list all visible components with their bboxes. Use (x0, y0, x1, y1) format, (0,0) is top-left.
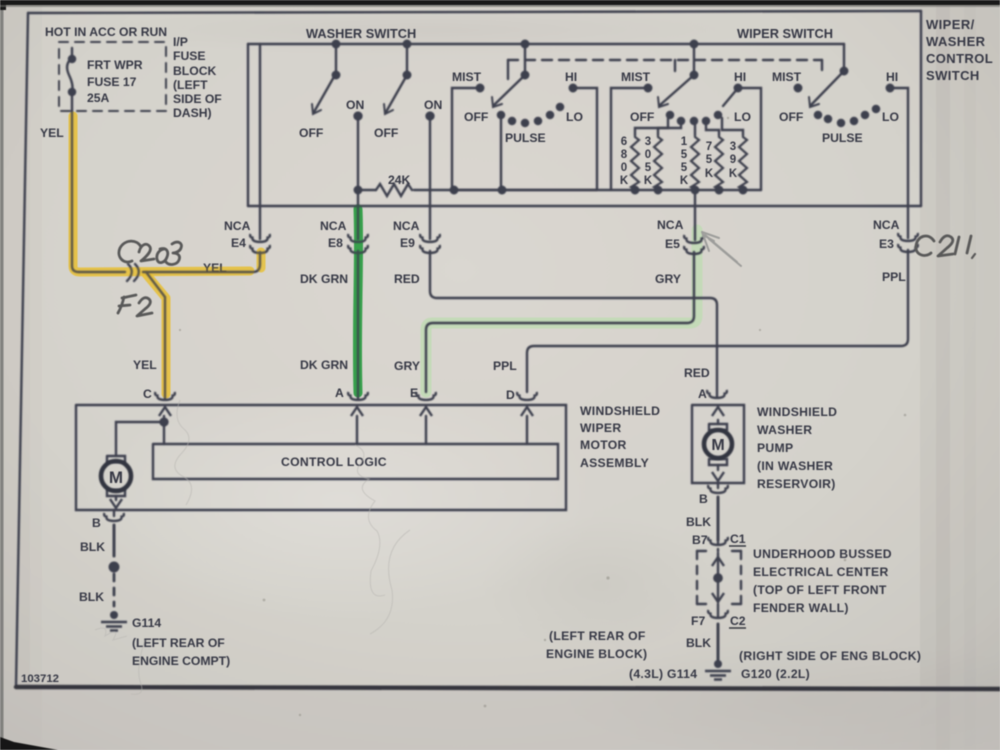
pulse arc 3 dots (815, 112, 821, 118)
terminal E (416, 392, 436, 400)
pump B wire below box (717, 483, 719, 488)
handwritten C203 (119, 241, 141, 262)
svg-text:MOTOR: MOTOR (580, 438, 627, 452)
svg-text:K: K (620, 175, 629, 187)
svg-text:8: 8 (621, 149, 628, 161)
BLK dashed section (113, 574, 116, 606)
motor out arrow (110, 499, 122, 508)
switch box bottom (248, 205, 921, 207)
terminal A (348, 392, 368, 400)
svg-text:(LEFT: (LEFT (173, 78, 208, 92)
UBEC bottom arrow (712, 593, 724, 602)
wiper switch arm 1 stem (524, 44, 526, 75)
svg-text:C1: C1 (730, 532, 746, 546)
svg-text:NCA: NCA (657, 218, 684, 232)
HI3 wire to E3 (890, 88, 908, 238)
branch to motor C (146, 272, 165, 399)
svg-text:5: 5 (681, 162, 688, 174)
svg-text:I/P: I/P (173, 35, 188, 49)
fuse terminal dots (69, 56, 75, 62)
svg-text:NCA: NCA (873, 218, 900, 232)
svg-text:FRT WPR: FRT WPR (87, 58, 143, 72)
motor junction dot (160, 418, 167, 425)
resistor 75K (715, 135, 723, 189)
wire E4 feed vertical (259, 44, 261, 239)
svg-text:M: M (109, 468, 123, 487)
svg-text:SIDE OF: SIDE OF (173, 92, 222, 106)
resistor 39K (739, 135, 747, 189)
svg-text:WASHER SWITCH: WASHER SWITCH (306, 26, 416, 41)
svg-text:E: E (410, 386, 418, 400)
page frame bottom border (16, 687, 1000, 689)
svg-text:1: 1 (681, 136, 688, 148)
washer pump motor M2 (704, 430, 732, 458)
marker tint over ink (73, 116, 359, 394)
grounds (101, 611, 731, 680)
svg-text:(LEFT REAR OF: (LEFT REAR OF (549, 629, 646, 643)
svg-text:LO: LO (566, 110, 583, 124)
pump down wire (717, 465, 719, 470)
handwritten C211 (916, 236, 934, 255)
svg-text:HOT IN ACC OR RUN: HOT IN ACC OR RUN (45, 25, 167, 39)
24K line dots (355, 187, 362, 194)
wiper motor M1 (101, 461, 131, 491)
wiper unit3 top corner down to arm3 (843, 44, 845, 71)
svg-text:B: B (92, 516, 101, 530)
resistor 305K (654, 135, 662, 189)
MIST and HI dots (477, 85, 484, 92)
svg-text:WINDSHIELD: WINDSHIELD (757, 405, 837, 419)
svg-text:0: 0 (621, 162, 627, 174)
E9 / RED wire (430, 251, 717, 397)
YEL wire from fuse down (72, 111, 79, 272)
resistor bottom dots (632, 187, 639, 194)
svg-text:WIPER SWITCH: WIPER SWITCH (737, 26, 833, 41)
svg-text:RED: RED (684, 366, 710, 380)
pulse arc 1 dots (498, 112, 504, 118)
24K resistor zigzag (376, 184, 412, 196)
svg-text:BLK: BLK (686, 636, 711, 650)
faint pencil squiggles (95, 400, 410, 694)
photo edge bars (0, 0, 1000, 5)
page frame left border (16, 13, 28, 687)
svg-text:E3: E3 (879, 237, 894, 251)
control logic box (153, 444, 558, 479)
junction dots top wire (333, 41, 340, 48)
svg-text:G120 (2.2L): G120 (2.2L) (741, 667, 810, 681)
svg-text:YEL: YEL (133, 358, 157, 372)
washer switch box left edge (247, 44, 249, 206)
wiper motor down wire (115, 496, 117, 500)
svg-text:(IN WASHER: (IN WASHER (757, 459, 833, 473)
C203 inline connector (127, 264, 139, 281)
wire ON1 to E8 (357, 116, 359, 239)
svg-text:HI: HI (734, 70, 746, 84)
svg-text:FUSE 17: FUSE 17 (87, 75, 137, 89)
resistor value digits (620, 136, 738, 187)
svg-text:RESERVOIR): RESERVOIR) (757, 477, 836, 491)
svg-text:MIST: MIST (772, 70, 802, 84)
ground G120 (705, 660, 731, 680)
svg-text:(LEFT REAR OF: (LEFT REAR OF (132, 636, 225, 650)
highlighter marks (73, 116, 697, 394)
svg-text:BLK: BLK (79, 590, 104, 604)
svg-text:GRY: GRY (394, 359, 420, 373)
svg-text:0: 0 (645, 149, 651, 161)
svg-text:WASHER: WASHER (926, 34, 986, 49)
svg-text:GRY: GRY (655, 272, 681, 286)
svg-text:HI: HI (886, 70, 898, 84)
svg-text:UNDERHOOD BUSSED: UNDERHOOD BUSSED (753, 547, 892, 561)
svg-text:B7: B7 (692, 533, 708, 547)
D internal wire (526, 416, 528, 444)
svg-text:MIST: MIST (452, 70, 482, 84)
UBEC junction dot (714, 574, 722, 582)
connector E8 (348, 234, 368, 242)
washer switch 2 stem (406, 44, 408, 75)
svg-text:CONTROL LOGIC: CONTROL LOGIC (281, 455, 387, 469)
svg-text:PULSE: PULSE (822, 131, 863, 145)
svg-text:K: K (644, 175, 653, 187)
svg-text:3: 3 (645, 136, 651, 148)
dashed override line (508, 59, 822, 61)
svg-text:NCA: NCA (224, 219, 251, 233)
green highlight on DK GRN wire E8 to A (357, 209, 358, 393)
fuse block dashed box (59, 42, 166, 111)
svg-text:E4: E4 (231, 236, 246, 250)
E8 / DK GRN wire to A (357, 251, 359, 399)
svg-text:(4.3L) G114: (4.3L) G114 (629, 667, 697, 681)
washer switch 1 stem (335, 44, 337, 75)
motor B wire below box (113, 510, 115, 516)
connector E5 (684, 235, 704, 243)
svg-text:NCA: NCA (393, 219, 420, 233)
BLK junction dot (110, 563, 119, 572)
svg-text:D: D (506, 388, 515, 402)
connector E9 (420, 234, 440, 242)
page frame top border (28, 11, 921, 13)
svg-text:(RIGHT SIDE OF ENG BLOCK): (RIGHT SIDE OF ENG BLOCK) (739, 649, 921, 663)
washer switch 24K branch line (358, 189, 597, 191)
switch pivot dots (333, 72, 340, 79)
svg-text:C2: C2 (730, 614, 746, 628)
svg-text:7: 7 (706, 141, 712, 153)
motors (101, 430, 732, 491)
connector E4 (250, 234, 270, 242)
svg-text:B: B (699, 492, 708, 506)
svg-text:A: A (335, 386, 344, 400)
ON contact dots (354, 112, 361, 119)
svg-text:G114: G114 (132, 616, 161, 630)
handwritten F2 (118, 295, 136, 313)
pale green highlight on GRY wire E5 to E (426, 230, 697, 392)
terminal C (155, 392, 175, 400)
UBEC top arrow (712, 557, 724, 566)
pump wire top (717, 420, 719, 424)
svg-text:BLOCK: BLOCK (173, 64, 217, 78)
svg-text:SWITCH: SWITCH (926, 68, 980, 83)
svg-text:OFF: OFF (779, 110, 803, 124)
svg-text:PULSE: PULSE (505, 131, 546, 145)
svg-text:YEL: YEL (40, 126, 64, 140)
svg-text:K: K (729, 168, 738, 180)
paper specks (179, 117, 906, 716)
svg-text:DK GRN: DK GRN (300, 272, 348, 286)
terminal D (517, 392, 537, 400)
svg-text:5: 5 (706, 154, 713, 166)
svg-text:ELECTRICAL CENTER: ELECTRICAL CENTER (753, 565, 889, 579)
terminal F7 (708, 610, 728, 618)
svg-text:ASSEMBLY: ASSEMBLY (580, 456, 649, 470)
connector B7/C1 (708, 537, 728, 545)
svg-text:(TOP OF LEFT FRONT: (TOP OF LEFT FRONT (753, 583, 887, 597)
svg-text:BLK: BLK (686, 515, 711, 529)
connector E3 (898, 233, 918, 241)
svg-text:E8: E8 (328, 236, 343, 250)
yellow highlight on E4 stub (257, 252, 266, 268)
svg-text:PPL: PPL (882, 270, 906, 284)
svg-text:25A: 25A (87, 91, 110, 105)
svg-text:FUSE: FUSE (173, 49, 206, 63)
B7/C1 connector (717, 540, 719, 551)
resistor top links (635, 118, 668, 135)
handwritten annotations (118, 236, 975, 316)
wiper motor assembly box (76, 405, 566, 510)
wiper switch arm 2 stem (693, 44, 695, 75)
svg-text:MIST: MIST (621, 70, 651, 84)
underhood bussed electrical center dashed box (697, 551, 741, 604)
svg-text:WASHER: WASHER (757, 423, 812, 437)
wire E5 feed below resistor (694, 190, 696, 240)
wiper switch arm 1 (494, 75, 525, 105)
pump brushes (709, 424, 727, 465)
svg-text:BLK: BLK (80, 540, 105, 554)
big section labels (281, 17, 993, 681)
svg-text:HI: HI (565, 70, 577, 84)
UBEC internal wire (717, 553, 719, 602)
svg-text:5: 5 (681, 149, 688, 161)
svg-text:RED: RED (394, 272, 420, 286)
wiper/washer control switch box right edge (920, 11, 922, 206)
svg-text:PPL: PPL (493, 359, 517, 373)
svg-text:OFF: OFF (299, 126, 323, 140)
svg-text:K: K (680, 175, 689, 187)
svg-text:3: 3 (730, 141, 736, 153)
wiper unit1 inner box (452, 88, 480, 190)
ground G114 (101, 611, 127, 631)
wiper switch arm 3 (811, 71, 844, 105)
svg-text:WIPER: WIPER (580, 421, 621, 435)
svg-text:24K: 24K (388, 173, 411, 187)
resistor 155K (691, 135, 699, 189)
fuse element (67, 48, 72, 111)
svg-text:103712: 103712 (21, 673, 59, 685)
svg-text:9: 9 (730, 154, 736, 166)
yellow highlight on YEL wire from fuse (73, 116, 250, 272)
wire ON2 to E9 (429, 116, 431, 239)
svg-text:LO: LO (882, 110, 899, 124)
motor C internal wiring (163, 416, 165, 444)
E internal wire (425, 416, 427, 444)
connectors (104, 233, 918, 618)
svg-text:ON: ON (346, 98, 364, 112)
F7/C2 wire below (717, 604, 719, 617)
svg-text:OFF: OFF (630, 110, 654, 124)
pulse1 drop wire (500, 117, 502, 190)
yellow highlight on branch to C terminal (146, 274, 166, 394)
svg-text:C: C (143, 387, 152, 401)
svg-text:WINDSHIELD: WINDSHIELD (580, 404, 660, 418)
svg-text:ENGINE BLOCK): ENGINE BLOCK) (546, 647, 647, 661)
svg-text:E9: E9 (400, 236, 415, 250)
svg-text:PUMP: PUMP (757, 441, 793, 455)
unit2 contact dots (667, 112, 673, 118)
terminal B pump (708, 485, 728, 493)
svg-text:WIPER/: WIPER/ (926, 17, 975, 32)
wiper unit2 inner box (611, 88, 648, 190)
svg-text:OFF: OFF (464, 110, 488, 124)
washer switch 1 arm (314, 75, 335, 112)
svg-text:M: M (711, 437, 724, 454)
svg-text:DK GRN: DK GRN (300, 358, 348, 372)
svg-text:E5: E5 (665, 237, 680, 251)
svg-text:5: 5 (645, 162, 652, 174)
pump out arrow (712, 472, 724, 481)
resistors bank (631, 135, 747, 189)
svg-text:F7: F7 (691, 614, 705, 628)
washer pump box (692, 405, 744, 483)
terminal B motor (104, 513, 124, 521)
svg-text:DASH): DASH) (173, 106, 212, 120)
svg-text:K: K (705, 168, 714, 180)
svg-text:NCA: NCA (320, 219, 347, 233)
svg-text:ON: ON (424, 98, 442, 112)
svg-text:A: A (698, 387, 707, 401)
svg-text:OFF: OFF (374, 126, 398, 140)
resistor 680K (631, 135, 639, 189)
pencil arrow at E5 (702, 232, 741, 266)
switch box inner top wire (248, 43, 844, 45)
svg-text:CONTROL: CONTROL (926, 51, 993, 66)
wiper switch arm 2 (660, 75, 694, 105)
svg-text:FENDER WALL): FENDER WALL) (753, 601, 849, 615)
wiper motor brushes (107, 456, 125, 496)
E4 drop to YEL wire (253, 252, 260, 272)
E3 / PPL wire (527, 250, 908, 392)
YEL horizontal wire to E4 (79, 271, 252, 273)
svg-text:LO: LO (734, 110, 751, 124)
svg-text:ENGINE COMPT): ENGINE COMPT) (132, 654, 230, 668)
svg-text:6: 6 (621, 136, 627, 148)
unit2 HI-LO link (723, 88, 738, 106)
washer switch 2 arm (386, 75, 407, 112)
A internal wire (356, 416, 358, 444)
E5 / GRY wire (426, 252, 694, 392)
terminal A pump (707, 390, 727, 398)
